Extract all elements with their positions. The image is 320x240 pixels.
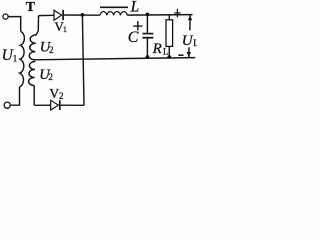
svg-text:C: C xyxy=(128,29,139,46)
diode V1 cathode bar xyxy=(62,10,64,20)
wire: center tap rail to minus terminal xyxy=(34,58,196,60)
wire: secondary top lead xyxy=(36,16,38,35)
wire: primary bottom lead xyxy=(11,87,20,105)
wire: bottom rail secondary to diode V2 xyxy=(34,104,50,106)
resistor RL top lead xyxy=(168,15,170,20)
node: junction dot rectifier output xyxy=(81,13,85,17)
svg-text:R: R xyxy=(152,41,162,57)
svg-text:2: 2 xyxy=(49,45,54,55)
terminal: input top xyxy=(3,14,8,19)
node: dot resistor bottom xyxy=(167,55,171,59)
resistor RL body xyxy=(166,20,173,47)
node: dot capacitor top xyxy=(146,13,150,17)
svg-text:2: 2 xyxy=(48,72,53,82)
minus sign at output xyxy=(178,54,183,56)
inductor L winding xyxy=(100,12,127,16)
wire: top rail from secondary to diode V1 xyxy=(39,14,54,16)
svg-text:1: 1 xyxy=(13,54,17,64)
resistor RL bottom lead xyxy=(168,46,170,57)
svg-text:U: U xyxy=(182,33,194,49)
wire: secondary bottom lead xyxy=(33,86,35,106)
diode V1 xyxy=(54,10,62,20)
svg-text:1: 1 xyxy=(63,24,67,34)
svg-text:L: L xyxy=(163,46,169,56)
voltage arrow UL upper head xyxy=(188,15,192,20)
wire: crossover vertical (V2 cathode to junction) xyxy=(82,15,84,105)
capacitor C top lead xyxy=(146,14,148,33)
inductor L core bar xyxy=(100,6,128,8)
wire: input top to primary xyxy=(8,17,20,32)
capacitor C top plate xyxy=(142,33,153,35)
svg-text:L: L xyxy=(193,38,197,48)
terminal: input bottom xyxy=(4,102,10,108)
diode V2 xyxy=(51,100,59,110)
diode V2 cathode bar xyxy=(59,100,61,110)
voltage arrow UL lower segment xyxy=(188,47,190,57)
transformer secondary upper winding xyxy=(29,35,36,60)
node: dot capacitor bottom xyxy=(146,55,150,59)
voltage arrow UL upper segment xyxy=(189,15,191,31)
capacitor C bottom lead xyxy=(146,39,148,58)
svg-text:T: T xyxy=(26,0,36,15)
wire: bottom rail V2 to crossover xyxy=(61,104,85,106)
wire: top rail V1 to junction xyxy=(64,14,100,16)
transformer secondary lower winding xyxy=(29,61,36,85)
svg-text:V: V xyxy=(49,86,59,101)
transformer primary winding xyxy=(20,31,25,87)
capacitor C bottom plate xyxy=(142,37,153,39)
svg-text:2: 2 xyxy=(59,91,64,101)
svg-text:L: L xyxy=(130,0,140,15)
plus sign at capacitor xyxy=(133,21,142,30)
voltage arrow UL lower head xyxy=(187,52,191,57)
wire: top rail inductor to end xyxy=(127,14,192,17)
plus sign at output xyxy=(174,9,180,17)
